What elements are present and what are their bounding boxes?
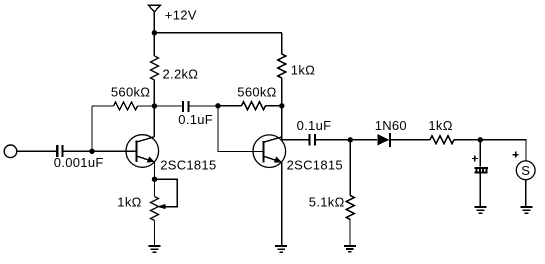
plus sign (speaker) bbox=[513, 152, 519, 158]
wire node to C2 bbox=[154, 105, 182, 107]
wire R1k#2 to node bbox=[454, 139, 480, 141]
power +12V symbol bbox=[148, 5, 160, 12]
wire 560k#2 to collector node bbox=[266, 105, 282, 107]
ground (cap) bbox=[475, 206, 487, 214]
wire Q1 emitter bbox=[154, 162, 156, 179]
wire R1k to node bbox=[281, 78, 283, 106]
capacitor 0.1uF #1 bbox=[182, 101, 189, 112]
wire rail to R 1k bbox=[281, 33, 283, 54]
ground (pot) bbox=[149, 245, 161, 253]
resistor 560k #2 zigzag bbox=[242, 102, 266, 110]
wire collector to C4 bbox=[282, 139, 309, 141]
svg-text:+12V: +12V bbox=[165, 8, 197, 23]
node emitter junction bbox=[152, 177, 157, 182]
svg-text:S: S bbox=[521, 163, 530, 178]
wire pot bypass L-run bbox=[155, 179, 178, 206]
electrolytic capacitor C5 bbox=[474, 167, 488, 174]
wire C1 to Q1 base bbox=[63, 150, 137, 152]
ground (Q2 emitter) bbox=[275, 245, 287, 253]
wire 5.1k to ground bbox=[349, 220, 351, 246]
wire Q2 collector bbox=[281, 106, 283, 140]
svg-text:1N60: 1N60 bbox=[375, 118, 407, 133]
ground (5.1k) bbox=[344, 245, 356, 253]
wire Q1 collector bbox=[153, 106, 155, 137]
wire stage2 base L-run bbox=[218, 106, 265, 152]
wire cap to ground bbox=[479, 174, 481, 207]
wire rail to R 2.2k bbox=[153, 33, 155, 56]
resistor 2.2k zigzag bbox=[150, 56, 158, 80]
wire node to diode bbox=[350, 139, 377, 141]
resistor 5.1k zigzag bbox=[346, 196, 354, 220]
speaker/output S symbol bbox=[516, 161, 535, 180]
wire R2.2k to node bbox=[153, 80, 155, 106]
transistor Q2 2SC1815 bbox=[253, 135, 286, 168]
svg-text:2SC1815: 2SC1815 bbox=[287, 157, 343, 172]
wire node to 560k#2 bbox=[218, 105, 242, 107]
wire S to ground bbox=[525, 180, 527, 207]
potentiometer 1k zigzag bbox=[151, 197, 159, 221]
wire diode to R1k#2 bbox=[391, 139, 430, 141]
svg-text:560kΩ: 560kΩ bbox=[237, 85, 276, 100]
pot wiper arrow bbox=[157, 204, 165, 209]
wire power to rail bbox=[153, 12, 155, 33]
wire C4 to node bbox=[316, 139, 350, 141]
resistor 560k #1 zigzag bbox=[114, 102, 138, 110]
svg-text:1kΩ: 1kΩ bbox=[291, 63, 315, 78]
ground (S) bbox=[521, 206, 533, 214]
wire top rail bbox=[154, 32, 281, 34]
node rail-left junction bbox=[152, 30, 157, 35]
capacitor 0.1uF #2 bbox=[308, 134, 316, 145]
svg-text:0.1uF: 0.1uF bbox=[178, 112, 213, 127]
node Q1 base junction bbox=[89, 149, 94, 154]
wire C2 to node bbox=[189, 105, 218, 107]
svg-text:5.1kΩ: 5.1kΩ bbox=[309, 195, 345, 210]
svg-text:1kΩ: 1kΩ bbox=[117, 195, 141, 210]
resistor 1k zigzag (collector load) bbox=[278, 54, 286, 78]
wire 5.1k top bbox=[349, 140, 351, 196]
wire 560k#1 to node bbox=[138, 105, 155, 107]
svg-text:560kΩ: 560kΩ bbox=[111, 85, 150, 100]
wire feedback down to base node bbox=[91, 106, 93, 151]
wire Q2 emitter to ground bbox=[281, 162, 283, 245]
svg-text:0.001uF: 0.001uF bbox=[54, 155, 104, 170]
svg-text:2.2kΩ: 2.2kΩ bbox=[163, 66, 199, 81]
wire output node to cap bbox=[479, 140, 481, 167]
plus sign (cap) bbox=[472, 156, 478, 162]
svg-text:1kΩ: 1kΩ bbox=[428, 118, 452, 133]
wire emitter node to pot bbox=[154, 179, 156, 196]
wire pot to ground bbox=[154, 221, 156, 246]
svg-text:2SC1815: 2SC1815 bbox=[160, 157, 216, 172]
wire input to C1 bbox=[17, 150, 57, 152]
diode 1N60 bbox=[377, 133, 391, 147]
node output junction bbox=[478, 137, 483, 142]
wire feedback left end bbox=[92, 105, 114, 107]
node detector junction bbox=[348, 137, 353, 142]
node Q1 collector junction bbox=[152, 103, 157, 108]
resistor 1k #2 zigzag bbox=[430, 136, 454, 144]
svg-text:0.1uF: 0.1uF bbox=[297, 118, 332, 133]
transistor Q1 2SC1815 bbox=[126, 135, 159, 168]
node Q2 collector junction bbox=[279, 103, 284, 108]
capacitor 0.001uF bbox=[56, 145, 63, 157]
wire node to S corner bbox=[480, 140, 526, 161]
input terminal bbox=[4, 145, 17, 158]
node stage2 bias junction bbox=[215, 103, 220, 108]
